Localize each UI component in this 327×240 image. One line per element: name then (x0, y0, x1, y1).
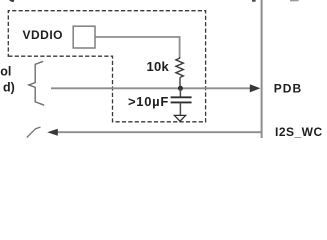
curly brace (29, 61, 44, 105)
svg-text:d): d) (3, 80, 15, 94)
top stub wire (cut off) (252, 0, 256, 2)
partial brace (cut off, bottom-left) (27, 127, 41, 138)
partial gray box edge (cut off, top-right) (290, 0, 299, 1)
arrowhead PDB (250, 84, 261, 92)
ground symbol (174, 115, 185, 121)
wire capacitor to ground (179, 102, 181, 115)
svg-text:VDDIO: VDDIO (23, 28, 64, 42)
arrowhead I2S_WC (points left) (47, 129, 58, 136)
capacitor bottom plate (171, 101, 192, 103)
bottom wire I2S_WC (57, 131, 261, 133)
main wire to PDB pin (51, 87, 251, 89)
svg-text:I2S_WC: I2S_WC (275, 125, 323, 138)
svg-text:ol: ol (0, 64, 11, 78)
svg-text:>10µF: >10µF (128, 94, 169, 109)
chip boundary line (261, 0, 263, 138)
VDDIO pin box (73, 26, 95, 48)
wire VDDIO box to resistor (96, 37, 180, 57)
svg-text:10k: 10k (147, 59, 170, 74)
wire junction to capacitor (179, 88, 181, 97)
wire resistor to junction (179, 78, 181, 89)
partial arrowhead (cut off at top-left) (9, 0, 14, 2)
junction node (178, 86, 183, 91)
dashed supply-domain boundary (8, 11, 205, 122)
capacitor C (>10uF) top plate (171, 96, 192, 98)
svg-text:PDB: PDB (274, 82, 302, 96)
resistor R (10k) (176, 57, 183, 78)
